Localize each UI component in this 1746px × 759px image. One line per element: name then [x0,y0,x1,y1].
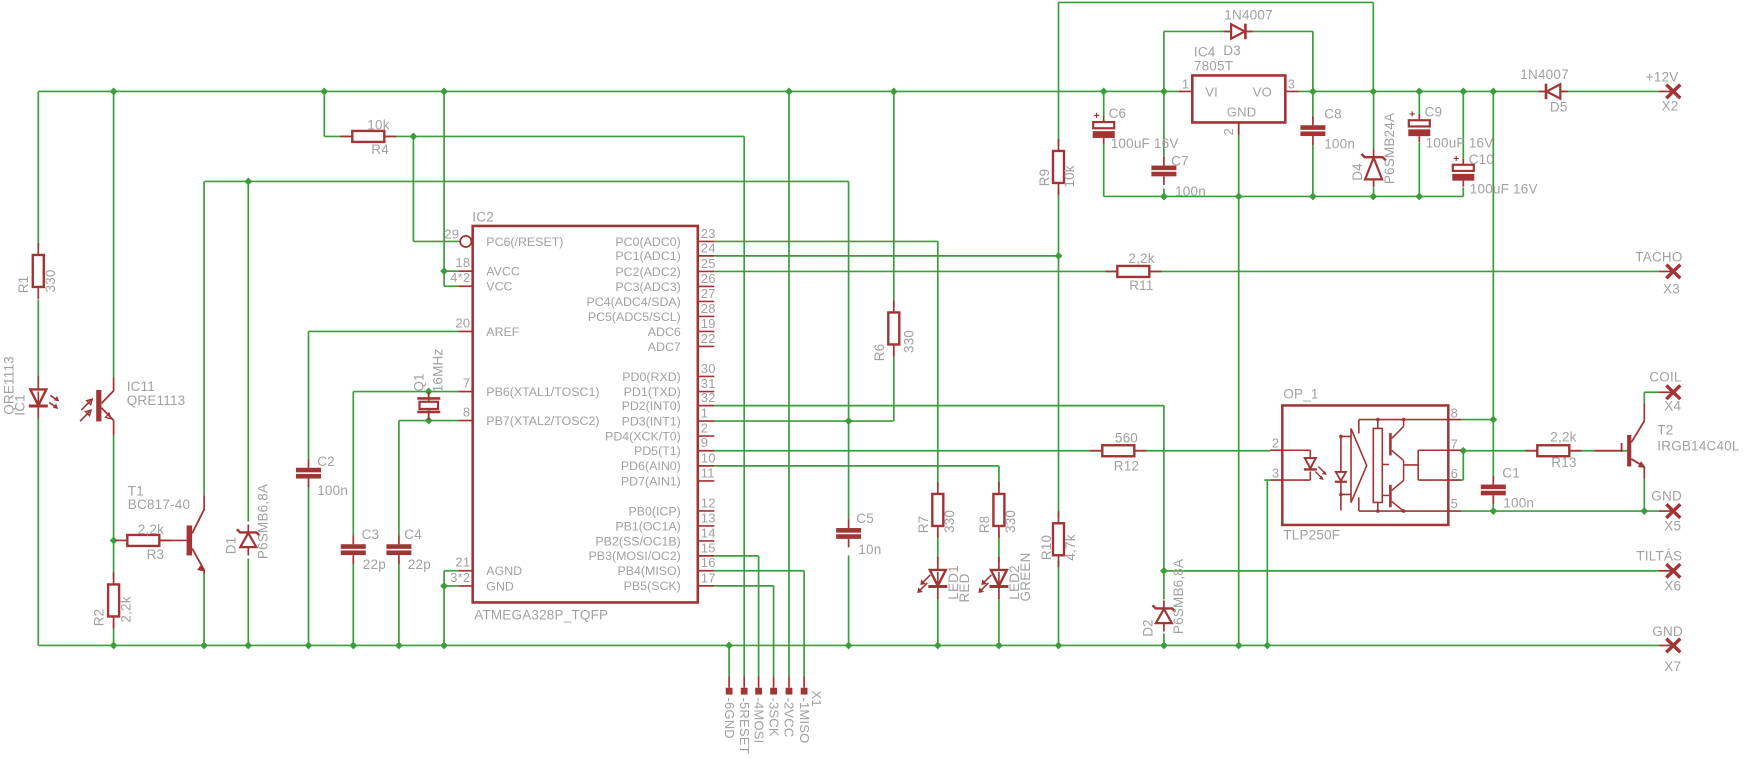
pin X2 [1659,85,1681,99]
svg-text:-3SCK: -3SCK [766,697,781,736]
wire [1643,392,1645,404]
junction [890,88,898,96]
svg-text:30: 30 [701,361,716,376]
svg-text:3*2: 3*2 [450,570,470,585]
svg-text:16MHz: 16MHz [430,349,445,393]
svg-text:27: 27 [701,286,716,301]
wire [352,560,354,645]
svg-text:PC5(ADC5/SCL): PC5(ADC5/SCL) [588,310,681,324]
svg-text:PD1(TXD): PD1(TXD) [624,385,681,399]
svg-text:-2VCC: -2VCC [782,697,797,737]
svg-text:5: 5 [1451,496,1458,511]
svg-text:R1: R1 [16,276,31,294]
svg-text:PB4(MISO): PB4(MISO) [617,564,680,578]
LED LED1 [917,557,947,599]
pin 23 PC0(ADC0) [615,226,715,249]
resistor R13 [1525,445,1581,456]
junction [1489,507,1497,515]
svg-text:PD5(T1): PD5(T1) [634,444,681,458]
junction [1459,447,1467,455]
junction [320,88,328,96]
wire [998,598,1000,646]
resistor R2 [108,572,119,628]
resistor R6 [888,300,899,356]
resistor R10 [1053,511,1064,567]
svg-text:R6: R6 [872,344,887,362]
capacitor C9 [1408,108,1430,142]
svg-text:8: 8 [1451,405,1458,420]
pin X4 [1659,385,1681,399]
svg-text:VI: VI [1205,84,1218,99]
pin 4*2 VCC [450,270,512,293]
wire [1418,91,1420,114]
wire [1643,478,1645,511]
diode D1 [237,524,260,555]
svg-text:P6SMB6,8A: P6SMB6,8A [1171,559,1186,634]
svg-text:23: 23 [701,226,716,241]
junction [1459,88,1467,96]
wire [203,181,205,495]
resistor R11 [1105,266,1161,277]
svg-text:PD7(AIN1): PD7(AIN1) [621,474,681,488]
wire [398,421,400,537]
wire [1103,91,1105,116]
wire [1372,2,1374,91]
svg-text:100n: 100n [1503,495,1534,510]
crystal Q1 [417,392,440,420]
svg-text:7: 7 [1451,436,1458,451]
svg-text:Q1: Q1 [411,373,426,391]
svg-text:9: 9 [701,435,708,450]
wire [353,391,458,393]
svg-text:PC4(ADC4/SDA): PC4(ADC4/SDA) [586,295,680,309]
wire [1492,91,1494,419]
pin 13 PB1(OC1A) [615,510,715,533]
pin 10 PD6(AIN0) [621,450,716,473]
svg-text:TACHO: TACHO [1635,249,1682,264]
svg-text:PB0(ICP): PB0(ICP) [628,504,680,518]
wire [1644,391,1659,393]
junction [1160,88,1168,96]
svg-text:-4MOSI: -4MOSI [751,697,766,743]
junction [1055,642,1063,650]
junction [425,417,433,425]
junction [725,642,733,650]
wire TILTAS to X6 [1164,570,1659,572]
svg-text:IRGB14C40L: IRGB14C40L [1657,438,1740,453]
svg-text:16: 16 [701,555,716,570]
IC IC4 7805T [1178,75,1299,134]
junction [1309,193,1317,201]
pin 14 PB2(SS/OC1B) [595,525,715,548]
svg-text:22p: 22p [363,557,386,572]
junction [440,267,448,275]
wire [728,645,730,676]
pin 9 PD5(T1) [634,435,714,458]
diode D2 [1153,600,1176,631]
wire [113,91,115,377]
pin 18 AVCC [455,255,519,278]
junction [349,642,357,650]
svg-text:PB3(MOSI/OC2): PB3(MOSI/OC2) [589,549,681,563]
junction [785,88,793,96]
svg-text:22p: 22p [408,557,431,572]
svg-text:24: 24 [701,240,716,255]
svg-text:100uF 16V: 100uF 16V [1470,182,1538,197]
wire [714,585,773,587]
svg-text:PB2(SS/OC1B): PB2(SS/OC1B) [595,534,680,548]
wire [1103,143,1105,196]
wire [444,285,458,287]
svg-text:31: 31 [701,376,716,391]
pin 12 PB0(ICP) [628,495,715,518]
wire PC2 / TACHO to X3 [714,270,1659,272]
svg-text:-5RESET: -5RESET [737,697,752,753]
wire [1163,406,1165,571]
svg-text:19: 19 [701,316,716,331]
wire [998,466,1000,488]
capacitor C1 [1481,476,1506,504]
svg-text:D2: D2 [1140,619,1155,637]
svg-text:R2: R2 [91,609,106,627]
junction [1640,507,1648,515]
svg-text:IC4: IC4 [1194,44,1216,59]
wire [428,392,430,421]
wire [714,465,999,467]
svg-text:AGND: AGND [486,564,522,578]
wire [1163,633,1165,645]
svg-text:C9: C9 [1425,105,1443,120]
wire +12V rail left [38,90,1178,92]
capacitor C3 [341,536,366,564]
wire [1312,143,1314,196]
svg-text:ADC6: ADC6 [648,325,681,339]
wire [444,270,458,272]
pin 2 PD4(XCK/T0) [605,421,714,444]
svg-text:R11: R11 [1129,278,1153,293]
svg-text:COIL: COIL [1649,369,1682,384]
junction [110,88,118,96]
wire [1492,420,1494,480]
LED IC1 emitter [29,376,60,418]
diode D5 [1539,84,1568,100]
wire [1492,500,1494,511]
svg-text:17: 17 [701,570,716,585]
svg-text:PB5(SCK): PB5(SCK) [624,579,681,593]
wire [1264,479,1270,481]
pin 17 PB5(SCK) [624,570,716,593]
junction [395,642,403,650]
svg-text:D4: D4 [1350,163,1365,181]
svg-text:10k: 10k [367,117,389,132]
wire [848,181,850,520]
svg-text:8: 8 [463,405,470,420]
wire [1163,31,1165,158]
junction [1160,193,1168,201]
svg-text:VO: VO [1253,84,1272,99]
wire [247,558,249,645]
capacitor C4 [386,536,411,564]
svg-text:PD6(AIN0): PD6(AIN0) [621,459,681,473]
svg-text:R13: R13 [1551,455,1576,470]
pin 31 PD1(TXD) [624,376,716,399]
wire [1462,91,1464,158]
wire [1373,91,1375,149]
svg-text:PC6(/RESET): PC6(/RESET) [486,235,563,249]
svg-text:PB1(OC1A): PB1(OC1A) [615,519,680,533]
wire [324,135,744,137]
junction [1160,642,1168,650]
svg-text:TLP250F: TLP250F [1283,527,1340,542]
resistor R8 [993,482,1004,538]
svg-text:R12: R12 [1114,458,1139,473]
junction [200,642,208,650]
junction [410,133,418,141]
svg-text:C8: C8 [1324,107,1342,122]
pin 32 PD2(INT0) [622,390,716,413]
wire [1462,451,1464,480]
svg-text:R7: R7 [916,516,931,534]
svg-text:20: 20 [455,315,470,330]
svg-text:C2: C2 [317,454,335,469]
svg-text:BC817-40: BC817-40 [128,497,190,512]
wire [743,136,745,676]
svg-text:PD4(XCK/T0): PD4(XCK/T0) [605,429,681,443]
junction [1415,88,1423,96]
junction [845,642,853,650]
svg-text:X2: X2 [1662,99,1679,114]
wire [399,420,458,422]
svg-text:IC1: IC1 [12,394,27,416]
wire [1163,571,1165,600]
wire [758,556,760,677]
svg-text:PC1(ADC1): PC1(ADC1) [615,249,680,263]
svg-text:18: 18 [455,255,470,270]
pin 20 AREF [455,315,519,338]
junction [1415,193,1423,201]
svg-text:330: 330 [942,510,957,533]
diode D4 [1361,149,1385,187]
svg-text:28: 28 [701,301,716,316]
svg-text:X6: X6 [1664,578,1681,593]
svg-text:QRE1113: QRE1113 [127,393,186,408]
svg-text:+: + [1453,153,1459,165]
wire [1058,560,1060,645]
svg-text:GND: GND [486,579,514,593]
pin X5 [1659,504,1681,518]
pin 8 PB7(XTAL2/TOSC2) [458,405,599,428]
connector X1 [722,676,824,753]
svg-text:15: 15 [701,540,716,555]
svg-text:4,7k: 4,7k [1063,534,1078,560]
svg-text:GND: GND [1227,104,1257,119]
svg-text:22: 22 [701,331,716,346]
svg-text:560: 560 [1115,430,1138,445]
svg-text:GREEN: GREEN [1018,552,1033,601]
svg-text:4*2: 4*2 [450,270,470,285]
junction [1263,642,1271,650]
svg-text:7805T: 7805T [1194,58,1233,73]
wire [37,91,39,246]
svg-text:PC3(ADC3): PC3(ADC3) [615,280,680,294]
pin 25 PC2(ADC2) [615,256,715,279]
junction [1309,88,1317,96]
transistor T1 [159,495,205,573]
svg-text:D3: D3 [1223,43,1241,58]
wire [352,392,354,537]
wire [309,330,459,332]
junction [1489,416,1497,424]
wire [37,299,39,377]
resistor R12 [1090,445,1146,456]
svg-text:10k: 10k [1062,165,1077,187]
svg-text:R10: R10 [1039,535,1054,560]
junction [1235,642,1243,650]
pin 3*2 GND [450,570,514,593]
wire [1238,122,1240,645]
wire [204,180,848,182]
svg-text:29: 29 [444,226,459,241]
pin 11 PD7(AIN1) [621,465,715,488]
junction [244,178,252,186]
svg-text:PB6(XTAL1/TOSC1): PB6(XTAL1/TOSC1) [486,385,599,399]
wire [714,420,893,422]
junction [440,642,448,650]
svg-text:ADC7: ADC7 [648,340,681,354]
wire OP_1 pin7 to R13 to T2 gate [1463,450,1628,452]
svg-text:7: 7 [463,376,470,391]
wire [937,598,939,646]
svg-text:330: 330 [901,330,916,353]
junction [305,642,313,650]
svg-text:100n: 100n [1175,184,1206,199]
svg-text:C10: C10 [1469,152,1494,167]
svg-text:C5: C5 [856,511,874,526]
wire [1460,479,1463,481]
svg-text:2,2k: 2,2k [1128,251,1154,266]
svg-text:+: + [1409,108,1415,120]
svg-text:25: 25 [701,256,716,271]
resistor R9 [1053,139,1064,195]
wire [37,417,39,645]
pin 15 PB3(MOSI/OC2) [589,540,716,563]
pin 28 PC5(ADC5/SCL) [588,301,716,324]
pin 26 PC3(ADC3) [615,271,715,294]
svg-text:11: 11 [701,465,715,480]
svg-text:R8: R8 [977,516,992,534]
pin 21 AGND [455,555,522,578]
svg-text:10: 10 [701,450,716,465]
svg-text:100n: 100n [1324,136,1355,151]
svg-text:PD2(INT0): PD2(INT0) [622,399,681,413]
svg-text:ATMEGA328P_TQFP: ATMEGA328P_TQFP [474,607,608,622]
svg-text:330: 330 [43,269,58,292]
svg-text:X3: X3 [1663,281,1680,296]
resistor R1 [33,243,44,299]
svg-text:IC2: IC2 [472,209,494,224]
optocoupler OP_1 TLP250F [1270,405,1461,525]
svg-text:GND: GND [1651,488,1682,503]
pin 16 PB4(MISO) [617,555,715,578]
svg-text:2: 2 [1272,435,1279,450]
wire [443,91,445,286]
pin X7 [1659,639,1681,653]
svg-text:X4: X4 [1664,398,1681,413]
svg-text:PB7(XTAL2/TOSC2): PB7(XTAL2/TOSC2) [486,414,599,428]
pin 27 PC4(ADC4/SDA) [586,286,715,309]
svg-text:R4: R4 [371,142,389,157]
wire [714,240,938,242]
svg-text:3: 3 [1288,76,1295,91]
wire [323,91,325,136]
wire [714,570,804,572]
svg-text:21: 21 [455,555,470,570]
svg-text:T1: T1 [128,483,144,498]
svg-text:C3: C3 [362,527,380,542]
capacitor C2 [296,459,321,487]
wire [444,585,458,587]
wire GND bottom rail [38,644,1659,646]
resistor R7 [932,482,943,538]
wire [443,571,445,646]
svg-text:1: 1 [1182,76,1189,91]
svg-text:P6SMB6,8A: P6SMB6,8A [255,484,270,559]
resistor R4 [340,131,396,142]
wire [1312,31,1314,91]
junction [244,642,252,650]
junction [440,582,448,590]
wire [714,255,1058,257]
junction [1489,88,1497,96]
wire rail right / VO to X2 [1299,90,1659,92]
wire [1460,419,1493,421]
LED LED2 [978,557,1008,599]
wire [308,484,310,645]
svg-text:D1: D1 [223,537,238,555]
wire PD5 to R12 to OP_1 pin2 [714,450,1270,452]
svg-text:-6GND: -6GND [722,697,737,738]
wire [412,136,414,241]
svg-text:RED: RED [957,573,972,602]
svg-text:PD0(RXD): PD0(RXD) [622,370,681,384]
wire [1462,187,1464,196]
wire [893,91,895,306]
svg-text:C4: C4 [404,527,422,542]
wire [893,350,895,421]
svg-text:C7: C7 [1171,153,1189,168]
svg-text:R9: R9 [1037,169,1052,187]
wire [714,555,758,557]
resistor R3 [115,535,171,546]
junction [440,88,448,96]
phototransistor IC11 [80,377,114,435]
wire [773,586,775,677]
svg-text:+: + [1094,110,1100,122]
svg-text:PC2(ADC2): PC2(ADC2) [615,265,680,279]
wire [803,571,805,677]
svg-text:6: 6 [1451,466,1458,481]
junction [934,642,942,650]
pin 1 PD3(INT1) [622,406,715,429]
wire [203,573,205,645]
wire [998,532,1000,561]
svg-text:X1: X1 [809,690,824,706]
wire [1164,30,1313,32]
wire [1058,189,1060,517]
svg-text:C1: C1 [1502,465,1520,480]
wire [398,560,400,645]
capacitor C10 [1452,153,1474,187]
